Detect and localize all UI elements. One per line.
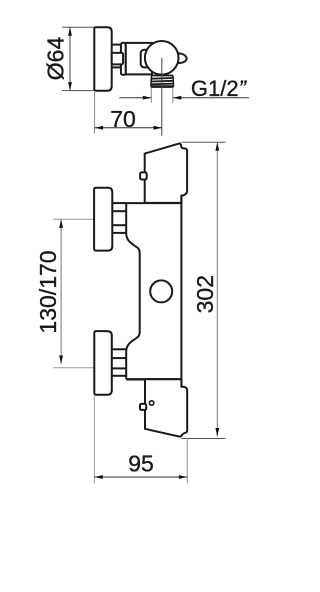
svg-text:302: 302	[192, 275, 218, 313]
node: 302 arrow up	[215, 142, 219, 151]
wire: thread right extension line	[172, 88, 174, 103]
small circle on bottom handle	[149, 401, 153, 405]
wire: pipe bottom line	[112, 66, 121, 68]
bottom connector ribs	[112, 349, 127, 376]
node: 70 left arrow	[95, 126, 104, 130]
node: G1/2 left arrow	[143, 96, 152, 100]
wire: body bottom joint line	[126, 378, 181, 380]
node: 302 arrow down	[215, 428, 219, 437]
wire: Ø64 dimension line	[69, 27, 71, 90]
clip square on top handle	[140, 172, 147, 179]
wire: Ø64 top extension line	[62, 26, 94, 28]
top connector ribs	[112, 203, 127, 233]
body left edge with waist	[126, 203, 140, 379]
knob pointer nub	[172, 53, 187, 63]
node: Ø64 arrow up	[68, 27, 72, 36]
wire: 70 dimension line	[95, 127, 162, 129]
wire: 302 dimension line	[216, 142, 218, 436]
wire: 302 bottom extension line	[182, 438, 226, 440]
wire: 130/170 dimension line	[60, 219, 62, 364]
svg-text:95: 95	[128, 451, 154, 477]
node: Ø64 arrow down	[68, 82, 72, 91]
wire: 302 top extension line	[182, 141, 226, 143]
wire: 130/170 bottom extension line	[53, 367, 94, 369]
wire: 95 left extension line	[93, 396, 95, 484]
wire: body top joint line	[126, 202, 181, 204]
union nut on pipe	[121, 43, 126, 75]
inner pipe square	[112, 53, 123, 65]
wire: 95 right extension line	[186, 439, 188, 484]
cartridge circle on body	[150, 280, 172, 302]
knob base bracket	[141, 50, 155, 68]
clip square on bottom handle	[140, 404, 146, 410]
wire: thread left extension line	[150, 88, 152, 103]
wire: G1/2 dimension left segment	[119, 97, 151, 99]
svg-text:130/170: 130/170	[35, 250, 61, 333]
top wall flange	[94, 188, 112, 251]
wire: G1/2 dimension right segment	[173, 97, 249, 99]
wall flange (side view)	[94, 27, 111, 90]
wire: vertical centerline through knob	[161, 58, 163, 136]
node: 95 right arrow	[179, 475, 188, 479]
body right edge	[180, 196, 182, 387]
node: 70 right arrow	[154, 126, 163, 130]
threaded outlet G1/2	[151, 75, 174, 87]
bottom wall flange	[94, 331, 112, 395]
valve body (side view)	[126, 43, 152, 75]
bottom handle (shower outlet)	[145, 379, 187, 436]
svg-text:Ø64: Ø64	[43, 37, 69, 81]
wire: 95 dimension line	[94, 476, 187, 478]
svg-text:G1/2”: G1/2”	[191, 76, 248, 101]
node: G1/2 right arrow	[173, 96, 182, 100]
wire: 130/170 top extension line	[53, 218, 94, 220]
wire: Ø64 bottom extension line	[62, 90, 94, 92]
wire: 70-dim left extension line	[94, 92, 96, 134]
top handle (temperature knob)	[145, 143, 187, 203]
node: 130/170 arrow up	[59, 219, 63, 228]
control knob circle	[145, 41, 179, 75]
svg-text:70: 70	[110, 106, 136, 132]
node: 130/170 arrow down	[59, 356, 63, 365]
node: 95 left arrow	[94, 475, 103, 479]
wire: pipe top line	[112, 44, 121, 46]
